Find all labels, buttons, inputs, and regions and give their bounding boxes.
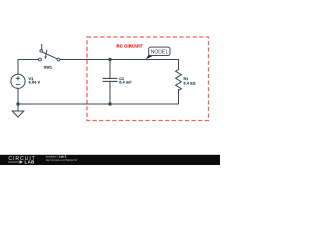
svg-text:http://circuitlab.com/c75ahkrj: http://circuitlab.com/c75ahkrje73dr — [46, 158, 78, 162]
svg-text:SW1: SW1 — [44, 65, 52, 69]
svg-text:NODE1: NODE1 — [151, 50, 168, 56]
svg-text:R1: R1 — [184, 77, 189, 81]
svg-text:5.4 kΩ: 5.4 kΩ — [184, 82, 196, 86]
svg-text:LAB: LAB — [25, 160, 35, 165]
svg-text:6.54 V: 6.54 V — [29, 81, 41, 85]
svg-text:RC CIRCUIT: RC CIRCUIT — [117, 44, 143, 49]
svg-text:5.4 mF: 5.4 mF — [119, 81, 132, 85]
